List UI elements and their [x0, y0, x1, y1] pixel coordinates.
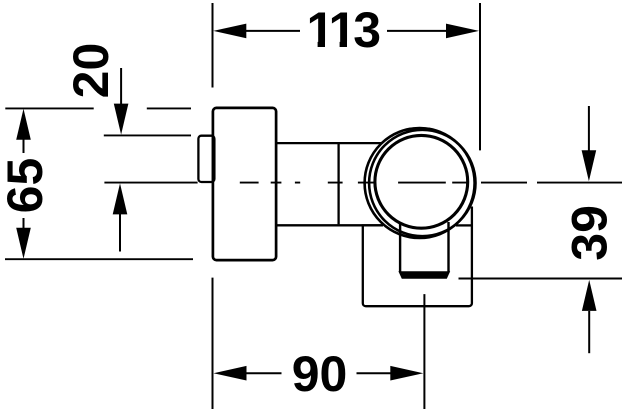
- wire 39 lower extension line: [459, 278, 622, 280]
- wire 113 right extension line: [479, 3, 481, 150]
- node 20 up arrow: [113, 183, 128, 214]
- wire 39 upper arrow line: [588, 106, 590, 151]
- wire 65 dimension line: [23, 135, 25, 248]
- node 39 down arrow: [582, 150, 597, 181]
- wire body joint vertical: [337, 143, 339, 224]
- node plate (wall escutcheon rounded rectangle): [213, 108, 276, 260]
- wire body top line: [276, 142, 381, 144]
- node 65 bottom arrow: [16, 228, 31, 259]
- node handle circle C (knob): [375, 135, 468, 228]
- wire 90 right extension line: [423, 294, 425, 409]
- node spout (outlet below circle): [400, 222, 448, 272]
- wire 113 left extension line: [212, 3, 214, 88]
- wire 90 dimension line: [243, 372, 394, 374]
- svg-text:20: 20: [63, 43, 119, 99]
- node handle circle A (outer flange): [365, 128, 475, 238]
- wire center line (horizontal dash-dot axis): [104, 182, 622, 184]
- node box (concealed housing below): [363, 207, 472, 307]
- wire 65 top extension line: [5, 107, 191, 109]
- wire 20 tab-top extension line: [104, 134, 191, 136]
- node tab (supply nipple on plate left): [198, 136, 214, 182]
- wire 20 upper arrow line: [120, 68, 122, 104]
- node 90 right arrow: [390, 366, 423, 381]
- wire 39 lower arrow line: [588, 311, 590, 353]
- node 90 left arrow: [214, 366, 247, 381]
- node 39 up arrow: [582, 280, 597, 311]
- svg-text:90: 90: [292, 346, 348, 402]
- svg-text:39: 39: [562, 205, 618, 261]
- wire 65 bottom extension line: [5, 258, 193, 260]
- node 113 right arrow: [446, 24, 479, 39]
- wire 90 left extension line: [212, 278, 214, 409]
- node 113 left arrow: [213, 24, 246, 39]
- wire 113 dimension line: [243, 30, 449, 32]
- node 65 top arrow: [16, 109, 31, 140]
- wire 20 lower arrow line: [119, 214, 121, 252]
- node handle circle B (second flange line): [369, 130, 475, 236]
- node aerator bar (thick outlet slot): [398, 271, 450, 279]
- wire body bottom line: [276, 224, 383, 226]
- svg-text:113: 113: [306, 2, 379, 58]
- node 20 down arrow: [114, 104, 129, 135]
- svg-text:65: 65: [0, 158, 53, 214]
